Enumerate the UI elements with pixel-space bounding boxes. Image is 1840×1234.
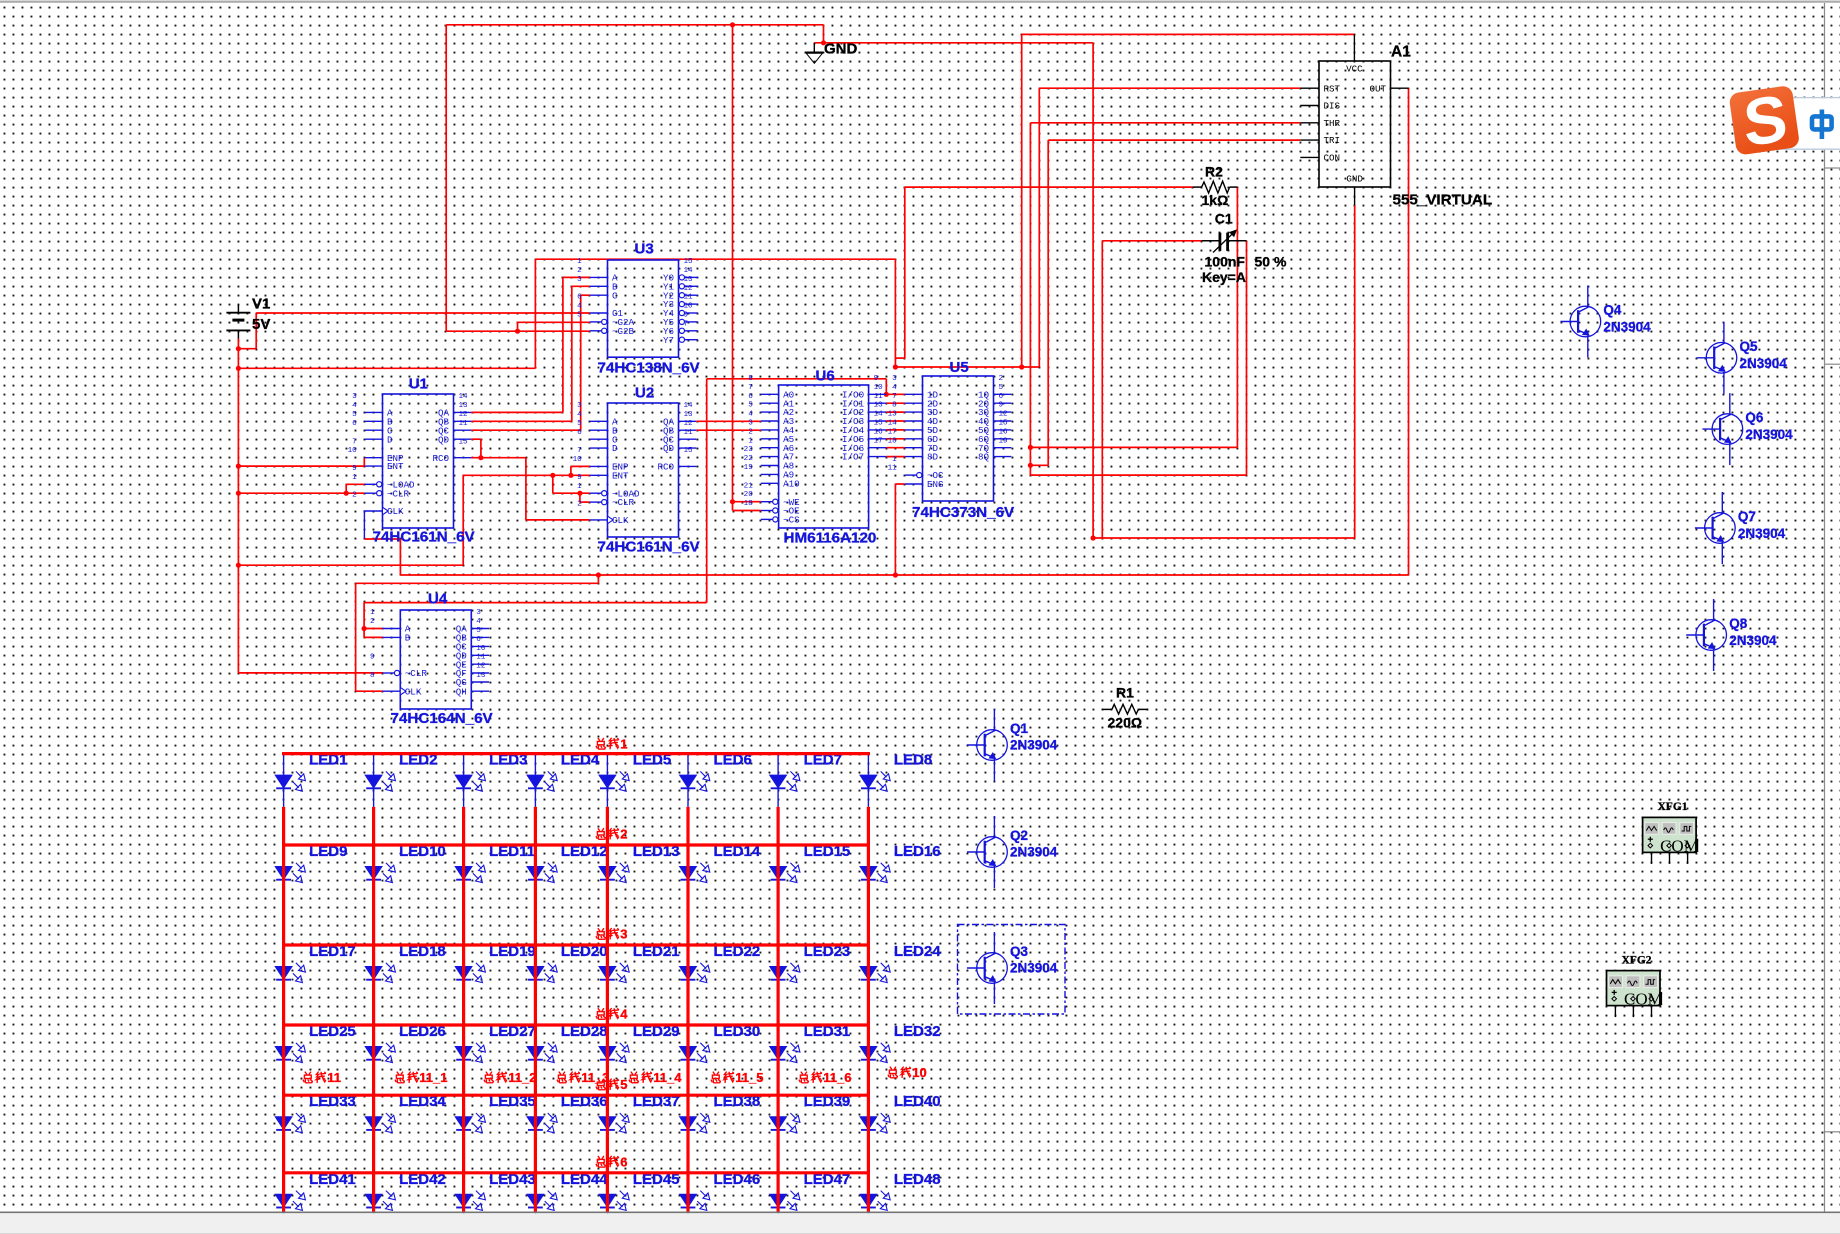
LED label LED8 — [894, 752, 932, 769]
LED label LED24 — [894, 943, 941, 960]
transistor Q8 (2N3904) — [1686, 599, 1726, 671]
svg-text:Q2: Q2 — [1010, 828, 1028, 843]
LED label LED17 — [309, 943, 356, 960]
net GND: junction at (732.5,24.8) — [730, 22, 735, 27]
svg-text:~CLR: ~CLR — [612, 497, 635, 508]
svg-text:74HC161N_6V: 74HC161N_6V — [373, 529, 476, 546]
svg-text:5V: 5V — [252, 316, 270, 333]
transistor Q2 (2N3904) — [967, 816, 1007, 888]
net VSS: wire to U2 ENT — [463, 474, 590, 476]
svg-text:3: 3 — [892, 375, 897, 383]
svg-text:4: 4 — [748, 411, 753, 419]
net VSS: link to G1 wire — [238, 313, 256, 349]
svg-text:4: 4 — [577, 303, 582, 311]
svg-text:Q1: Q1 — [1010, 721, 1029, 736]
svg-text:11_4: 11_4 — [653, 1070, 682, 1085]
capacitor C1 value 100nF — [1205, 254, 1246, 270]
net VSS: junction at (346.2,493.2) — [344, 491, 349, 496]
svg-text:~CS: ~CS — [783, 515, 800, 526]
LED diode LED6 — [680, 754, 710, 807]
svg-text:11: 11 — [459, 420, 469, 428]
IC U3 pins — [577, 258, 698, 346]
svg-text:VCC: VCC — [1346, 63, 1363, 74]
svg-text:11: 11 — [684, 429, 694, 437]
svg-text:2N3904: 2N3904 — [1010, 960, 1058, 975]
IC U4 refdes U4 — [428, 591, 448, 608]
LED diode LED43 — [455, 1173, 485, 1226]
bottom status bar — [0, 1212, 1840, 1234]
LED diode LED13 — [599, 845, 629, 898]
svg-text:CLK: CLK — [387, 506, 404, 517]
net GND: junction at (732.5,501.7) — [730, 499, 735, 504]
watermark band — [1762, 98, 1840, 150]
svg-text:2: 2 — [352, 492, 357, 500]
svg-text:Q3: Q3 — [1010, 944, 1029, 959]
svg-text:LED40: LED40 — [894, 1093, 941, 1110]
svg-text:4: 4 — [620, 1007, 628, 1022]
LED diode LED31 — [770, 1025, 800, 1078]
svg-text:6: 6 — [476, 636, 481, 644]
svg-text:QD: QD — [663, 443, 675, 454]
svg-text:10: 10 — [874, 384, 884, 392]
svg-text:16: 16 — [999, 428, 1009, 436]
LED label LED27 — [489, 1023, 536, 1040]
svg-text:3: 3 — [748, 420, 753, 428]
LED label LED11 — [489, 843, 535, 860]
LED label LED10 — [399, 843, 446, 860]
resistor R2 value 1k ohm — [1202, 192, 1229, 208]
net VSS: wire east along y=367 — [895, 366, 1039, 368]
bus net label zongxian11_5 — [711, 1070, 763, 1085]
svg-text:U2: U2 — [635, 385, 654, 402]
svg-text:11_6: 11_6 — [823, 1070, 851, 1085]
svg-text:16: 16 — [874, 428, 884, 436]
svg-text:2N3904: 2N3904 — [1603, 320, 1651, 335]
svg-text:2N3904: 2N3904 — [1740, 356, 1788, 371]
bus column zongxian11_5 vertical — [686, 807, 689, 1212]
svg-text:2: 2 — [577, 267, 582, 275]
bus net label zongxian11 — [303, 1070, 341, 1085]
bus row 2 (zongxian2) horizontal — [282, 843, 870, 846]
net VSS: wire to U1 ~CLR — [238, 492, 364, 494]
LED diode LED29 — [599, 1025, 629, 1078]
svg-text:1: 1 — [620, 736, 627, 751]
net VSS: junction at (1021.7,367.0) — [1019, 364, 1024, 369]
svg-text:13: 13 — [684, 276, 694, 284]
LED label LED21 — [633, 943, 680, 960]
net OUT: 555 OUT drop x=1408.5 — [1408, 88, 1410, 575]
svg-text:Q5: Q5 — [1740, 339, 1759, 354]
LED diode LED46 — [680, 1173, 710, 1226]
bus row 4 (zongxian4) horizontal — [282, 1023, 870, 1026]
bus row 1 (zongxian1) horizontal — [282, 752, 870, 755]
svg-text:ENG: ENG — [927, 479, 944, 490]
LED label LED37 — [633, 1093, 680, 1110]
bus row 6 (zongxian6) horizontal — [282, 1171, 870, 1174]
LED label LED1 — [309, 752, 347, 769]
svg-text:4: 4 — [577, 411, 582, 419]
transistor Q7 labels — [1738, 509, 1786, 541]
svg-text:11_5: 11_5 — [735, 1070, 763, 1085]
svg-text:2: 2 — [620, 827, 627, 842]
svg-text:19: 19 — [999, 437, 1009, 445]
svg-text:22: 22 — [744, 455, 754, 463]
svg-text:14: 14 — [684, 267, 694, 275]
svg-text:D: D — [612, 443, 618, 454]
LED diode LED44 — [527, 1173, 557, 1226]
svg-text:1: 1 — [748, 437, 753, 445]
svg-text:23: 23 — [744, 446, 754, 454]
LED diode LED35 — [455, 1095, 485, 1148]
IC A1 refdes — [1391, 44, 1411, 61]
net VSS: junction at (895.4,367.0) — [893, 364, 898, 369]
svg-text:QD: QD — [438, 434, 450, 445]
net OUT: long horizontal y=575 — [400, 574, 1408, 576]
svg-text:Q7: Q7 — [1738, 509, 1756, 524]
net VSS: junction at (238.4,565.2) — [236, 563, 241, 568]
net GND: wire to U6 ~WE — [733, 501, 761, 503]
net RCO1: U1 QD branch — [471, 439, 481, 458]
LED diode LED2 — [365, 754, 395, 807]
LED label LED28 — [561, 1023, 608, 1040]
svg-text:U3: U3 — [635, 241, 654, 258]
svg-text:12: 12 — [459, 411, 469, 419]
svg-text:S: S — [1741, 81, 1790, 161]
svg-text:9: 9 — [999, 402, 1004, 410]
net DATA0: junction at (886.3,394.3) — [884, 392, 889, 397]
svg-text:12: 12 — [684, 285, 694, 293]
IC A1 555 timer body — [1319, 61, 1391, 187]
svg-text:15: 15 — [999, 420, 1009, 428]
svg-text:12: 12 — [684, 420, 694, 428]
LED label LED30 — [714, 1023, 761, 1040]
LED diode LED38 — [680, 1095, 710, 1148]
IC U1 refdes U1 — [409, 376, 428, 393]
svg-text:2: 2 — [999, 375, 1004, 383]
svg-text:3: 3 — [620, 927, 627, 942]
svg-text:U1: U1 — [409, 376, 428, 393]
LED diode LED8 — [860, 754, 890, 807]
LED diode LED5 — [599, 754, 629, 807]
svg-text:15: 15 — [684, 447, 694, 455]
transistor Q5 labels — [1740, 339, 1788, 371]
LED label LED29 — [633, 1023, 680, 1040]
svg-text:13: 13 — [476, 672, 486, 680]
svg-text:1: 1 — [370, 609, 375, 617]
transistor Q3 (2N3904) — [967, 932, 1007, 1004]
svg-text:V1: V1 — [252, 296, 270, 313]
net THR: wire to R2 bottom riser — [1030, 187, 1237, 447]
LED diode LED12 — [527, 845, 557, 898]
bus net label zongxian1 — [596, 736, 627, 751]
svg-text:14: 14 — [874, 411, 884, 419]
net THR: riser x=1030.4 — [1030, 123, 1300, 475]
LED diode LED25 — [275, 1025, 305, 1078]
net VSS: 555 VCC riser — [1022, 34, 1354, 367]
battery V1 symbol — [226, 305, 250, 339]
LED label LED38 — [714, 1093, 761, 1110]
IC U2 refdes U2 — [635, 385, 654, 402]
LED label LED46 — [714, 1171, 761, 1188]
net GND: wire east to riser — [814, 42, 1093, 44]
bus net label zongxian3 — [596, 927, 627, 942]
svg-text:7: 7 — [577, 447, 582, 455]
svg-text:11: 11 — [888, 465, 898, 473]
svg-text:RCO: RCO — [432, 453, 449, 464]
IC U2 value 74HC161N_6V — [598, 539, 701, 556]
svg-text:21: 21 — [744, 482, 754, 490]
net VSS: wire along U3 top edge — [535, 258, 895, 260]
svg-text:6: 6 — [352, 420, 357, 428]
svg-text:15: 15 — [874, 420, 884, 428]
svg-text:18: 18 — [888, 437, 898, 445]
LED label LED20 — [561, 943, 608, 960]
net VSS: junction at (238.4,466.1) — [236, 464, 241, 469]
LED diode LED24 — [860, 945, 890, 998]
svg-text:8: 8 — [748, 375, 753, 383]
svg-text:13: 13 — [874, 402, 884, 410]
LED diode LED36 — [527, 1095, 557, 1148]
LED label LED16 — [894, 843, 941, 860]
net GND: junction at (823.5,42.8) — [821, 40, 826, 45]
battery V1 value 5V — [252, 316, 270, 333]
LED diode LED14 — [680, 845, 710, 898]
svg-text:4: 4 — [352, 402, 357, 410]
ground label GND — [824, 41, 858, 58]
capacitor C1 refdes — [1215, 211, 1233, 227]
bus net label zongxian2 — [596, 827, 627, 842]
LED diode LED23 — [770, 945, 800, 998]
svg-text:COM: COM — [1660, 836, 1699, 855]
transistor Q6 (2N3904) — [1702, 393, 1742, 465]
svg-text:3: 3 — [577, 276, 582, 284]
svg-text:555_VIRTUAL: 555_VIRTUAL — [1393, 192, 1493, 209]
LED label LED25 — [309, 1023, 356, 1040]
svg-text:6: 6 — [748, 393, 753, 401]
transistor Q8 labels — [1729, 616, 1777, 648]
svg-text:RCO: RCO — [657, 462, 674, 473]
net VSS: wire to U4 ~CLR — [238, 672, 383, 674]
LED label LED19 — [489, 943, 536, 960]
svg-text:I/O7: I/O7 — [842, 452, 864, 463]
svg-text:Q4: Q4 — [1603, 303, 1622, 318]
IC U1 value 74HC161N_6V — [373, 529, 476, 546]
LED diode LED4 — [527, 754, 557, 807]
IC U6 value HM6116A120 — [784, 530, 877, 547]
LED label LED12 — [561, 843, 608, 860]
instrument XFG2 (function generator) — [1607, 971, 1663, 1018]
svg-text:6: 6 — [577, 429, 582, 437]
net GND: wire C1 left plate to GND rail — [1102, 241, 1201, 538]
LED diode LED10 — [365, 845, 395, 898]
svg-text:CLK: CLK — [405, 686, 422, 697]
svg-text:8D: 8D — [927, 452, 939, 463]
svg-text:4: 4 — [476, 618, 481, 626]
svg-text:ENT: ENT — [612, 470, 629, 481]
svg-text:7: 7 — [352, 438, 357, 446]
top window border — [0, 1, 1840, 3]
IC U6 refdes U6 — [816, 368, 835, 385]
IC U2 pins — [573, 402, 697, 526]
svg-text:2N3904: 2N3904 — [1010, 844, 1058, 859]
bus column zongxian11 vertical — [282, 807, 285, 1212]
svg-text:2N3904: 2N3904 — [1745, 427, 1793, 442]
svg-text:19: 19 — [744, 464, 754, 472]
net GND: wire to U3 ~G2B — [518, 330, 590, 332]
svg-text:11_1: 11_1 — [419, 1070, 447, 1085]
svg-text:18: 18 — [744, 500, 754, 508]
bus column zongxian10 vertical — [867, 807, 870, 1212]
bus net label zongxian11_2 — [484, 1070, 536, 1085]
net VSS: 555 RST riser — [1039, 88, 1300, 367]
svg-text:R2: R2 — [1205, 164, 1223, 180]
svg-text:6: 6 — [999, 393, 1004, 401]
svg-text:6: 6 — [577, 294, 582, 302]
LED label LED13 — [633, 843, 680, 860]
LED label LED15 — [804, 843, 851, 860]
svg-text:13: 13 — [459, 402, 469, 410]
svg-text:CLK: CLK — [612, 515, 629, 526]
net VSS: junction at (570.9,475.3) — [568, 473, 573, 478]
logo chinese character zhong — [1812, 110, 1832, 140]
LED diode LED39 — [770, 1095, 800, 1148]
net RCO1: U1 RCO wire to U2 CLK — [471, 458, 590, 520]
svg-text:8: 8 — [892, 402, 897, 410]
svg-text:7: 7 — [892, 393, 897, 401]
transistor Q1 labels — [1010, 721, 1058, 753]
transistor Q3 labels — [1010, 944, 1058, 976]
selection box around Q3 — [958, 925, 1066, 1015]
transistor Q1 (2N3904) — [967, 709, 1007, 781]
svg-text:6: 6 — [620, 1154, 627, 1169]
svg-text:RST: RST — [1324, 83, 1341, 94]
svg-text:10: 10 — [476, 645, 486, 653]
svg-text:1kΩ: 1kΩ — [1202, 192, 1229, 208]
net QA2: U2 QA to U6 A3 — [696, 420, 761, 422]
svg-text:9: 9 — [370, 654, 375, 662]
LED label LED40 — [894, 1093, 941, 1110]
net GND: riser x=1093 down to 555 GND row — [1092, 43, 1094, 538]
LED diode LED3 — [455, 754, 485, 807]
svg-text:LED48: LED48 — [894, 1171, 941, 1188]
svg-text:14: 14 — [684, 402, 694, 410]
LED diode LED22 — [680, 945, 710, 998]
resistor R1 symbol — [1102, 704, 1148, 714]
LED label LED35 — [489, 1093, 536, 1110]
svg-text:12: 12 — [476, 663, 486, 671]
svg-text:1: 1 — [577, 258, 582, 266]
LED diode LED7 — [770, 754, 800, 807]
LED label LED45 — [633, 1171, 680, 1188]
net GND: junction at (1093.1,538) — [1091, 535, 1096, 540]
bus net label zongxian11_4 — [629, 1070, 682, 1085]
transistor Q4 labels — [1603, 303, 1651, 335]
LED label LED44 — [561, 1171, 608, 1188]
svg-text:1: 1 — [577, 483, 582, 491]
svg-text:9: 9 — [352, 465, 357, 473]
svg-text:2N3904: 2N3904 — [1738, 526, 1786, 541]
svg-text:D: D — [387, 434, 393, 445]
LED diode LED41 — [275, 1173, 305, 1226]
svg-text:TRI: TRI — [1324, 135, 1341, 146]
svg-text:12: 12 — [999, 411, 1009, 419]
net GND: wire to U6 ~OE — [733, 510, 761, 512]
svg-text:OUT: OUT — [1369, 83, 1386, 94]
net VSS: wire east then riser to U2 ENT row — [238, 475, 463, 565]
svg-text:A1: A1 — [1391, 44, 1411, 61]
IC U1 pins — [348, 393, 472, 517]
svg-text:~CLR: ~CLR — [387, 488, 410, 499]
ground symbol GND — [805, 43, 823, 64]
net OUT: U5 ENG riser — [895, 484, 904, 575]
svg-text:11_2: 11_2 — [508, 1070, 536, 1085]
svg-text:B: B — [405, 633, 411, 644]
svg-text:100nF: 100nF — [1205, 254, 1246, 270]
svg-text:15: 15 — [459, 438, 469, 446]
svg-text:1: 1 — [892, 456, 897, 464]
svg-text:5: 5 — [748, 402, 753, 410]
net THR: junction at (1030.4,447.4) — [1028, 445, 1033, 450]
svg-text:A10: A10 — [783, 478, 800, 489]
resistor R2 symbol — [1193, 181, 1238, 193]
LED label LED2 — [399, 752, 437, 769]
net QB1: U1 QB to U3 B — [471, 286, 590, 421]
net TRI: junction at (1030.4,465.3) — [1028, 463, 1033, 468]
net GND: long riser x=732.5 to U6 ~WE/~OE — [732, 25, 734, 511]
bus column zongxian11_3 vertical — [534, 807, 537, 1212]
net QC1: U1 QC to U3 C — [471, 295, 590, 430]
net VSS: junction at (238.4,493.2) — [236, 491, 241, 496]
svg-text:74HC161N_6V: 74HC161N_6V — [598, 539, 701, 556]
LED diode LED33 — [275, 1095, 305, 1148]
LED label LED47 — [804, 1171, 851, 1188]
bus row 3 (zongxian3) horizontal — [282, 943, 870, 946]
svg-text:~G2B: ~G2B — [612, 326, 635, 337]
bus net label zongxian5 — [596, 1077, 627, 1092]
LED diode LED26 — [365, 1025, 395, 1078]
svg-text:2: 2 — [370, 618, 375, 626]
instrument label XFG1 — [1658, 801, 1688, 813]
bus row 5 (zongxian5) horizontal — [282, 1094, 870, 1097]
svg-text:LED8: LED8 — [894, 752, 932, 769]
LED label LED3 — [489, 752, 527, 769]
svg-text:3: 3 — [476, 609, 481, 617]
svg-text:HM6116A120: HM6116A120 — [784, 530, 877, 547]
LED diode LED32 — [860, 1025, 890, 1078]
LED label LED22 — [714, 943, 761, 960]
LED diode LED21 — [599, 945, 629, 998]
LED label LED42 — [399, 1171, 446, 1188]
svg-text:ENT: ENT — [387, 461, 404, 472]
LED label LED9 — [309, 843, 347, 860]
IC U6 body — [779, 385, 869, 528]
svg-text:2N3904: 2N3904 — [1010, 737, 1058, 752]
net TRI/C1: wire to C1 bottom riser — [1030, 241, 1246, 475]
transistor Q6 labels — [1745, 410, 1793, 442]
LED diode LED11 — [455, 845, 485, 898]
battery V1 refdes — [252, 296, 270, 313]
LED label LED18 — [399, 943, 446, 960]
svg-text:9: 9 — [874, 375, 879, 383]
svg-text:C1: C1 — [1215, 211, 1233, 227]
net QA1: U1 QA to U3 A — [471, 277, 590, 412]
svg-text:11: 11 — [327, 1070, 341, 1085]
bus column zongxian11_1 vertical — [372, 807, 375, 1212]
LED label LED39 — [804, 1093, 851, 1110]
IC U2 body — [608, 403, 679, 537]
svg-text:5: 5 — [352, 411, 357, 419]
svg-text:GND: GND — [1346, 173, 1363, 184]
